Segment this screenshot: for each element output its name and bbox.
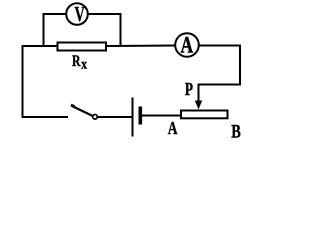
wire: main loop left vertical: [22, 46, 24, 117]
wire: bottom left horizontal to switch: [22, 116, 69, 118]
battery: [133, 98, 141, 137]
switch S: [71, 105, 97, 119]
wire: switch to battery: [98, 116, 132, 118]
svg-text:x: x: [81, 56, 87, 71]
voltmeter V: [66, 2, 88, 26]
svg-text:P: P: [185, 80, 194, 99]
wiper arrow P (down to rheostat top): [195, 84, 202, 110]
wire: voltmeter branch top right: [88, 13, 122, 15]
svg-text:V: V: [74, 2, 84, 26]
wire: voltmeter branch left vertical: [43, 14, 45, 47]
svg-text:R: R: [72, 53, 81, 70]
svg-text:A: A: [180, 33, 193, 58]
wire: top main from left corner to resistor box: [22, 45, 58, 47]
resistor Rx (box): [58, 43, 107, 51]
svg-text:B: B: [231, 121, 241, 142]
ammeter A: [175, 33, 199, 58]
wire: right vertical: [239, 45, 241, 85]
wire: horizontal jog to wiper: [199, 84, 242, 86]
svg-text:A: A: [168, 119, 178, 138]
wire: voltmeter branch top left: [43, 13, 67, 15]
wire: resistor box to ammeter: [107, 45, 176, 48]
rheostat AB (box): [181, 111, 228, 119]
wire: ammeter to top right corner: [199, 45, 241, 47]
wire: battery to rheostat: [142, 115, 181, 117]
wire: voltmeter branch right vertical: [120, 14, 122, 47]
